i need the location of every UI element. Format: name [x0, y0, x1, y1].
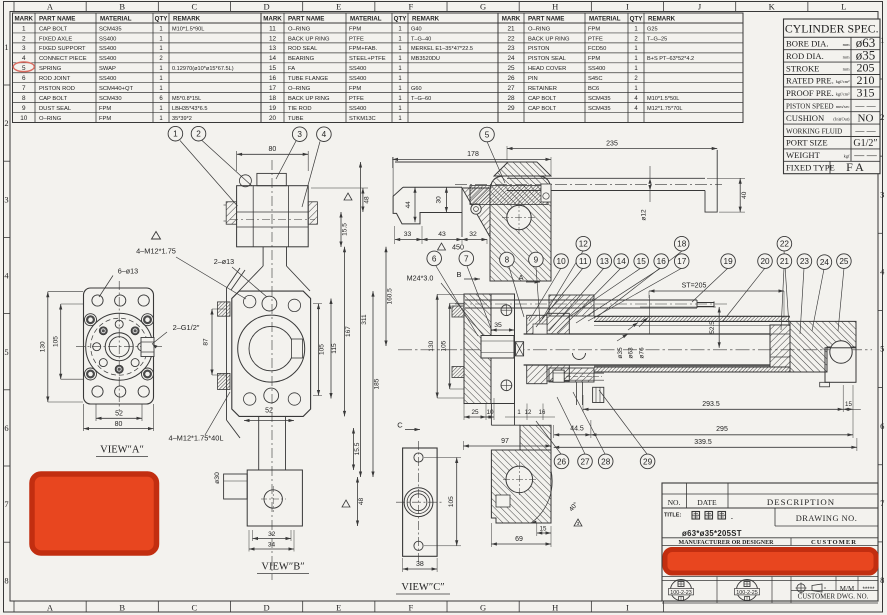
svg-text:PISTON: PISTON	[528, 46, 549, 52]
svg-text:PTFE: PTFE	[588, 36, 603, 42]
svg-text:STKM13C: STKM13C	[349, 116, 376, 122]
dim 48 upper	[311, 187, 368, 189]
svg-text:3: 3	[880, 189, 884, 199]
svg-text:PISTON SPEED: PISTON SPEED	[786, 103, 834, 111]
flange notch right	[292, 339, 303, 358]
title block	[662, 483, 878, 603]
svg-text:mm/sec: mm/sec	[836, 104, 850, 109]
svg-text:mm: mm	[843, 67, 850, 72]
svg-text:CUSTOMER DWG. NO.: CUSTOMER DWG. NO.	[798, 594, 869, 601]
gusset plate left	[227, 268, 241, 288]
dim 80 clevis	[236, 151, 238, 171]
svg-text:VIEW″B″: VIEW″B″	[261, 562, 304, 573]
balloon 16	[654, 254, 669, 269]
manufacturer / customer row	[662, 537, 878, 539]
balloon 3	[292, 127, 307, 142]
balloon 28	[598, 454, 613, 469]
svg-text:PORT SIZE: PORT SIZE	[786, 138, 828, 148]
svg-text:DESCRIPTION: DESCRIPTION	[767, 497, 835, 507]
balloon 19	[721, 254, 736, 269]
svg-text:DATE: DATE	[697, 498, 717, 507]
view A socket bolts	[85, 314, 97, 326]
svg-text:6: 6	[880, 421, 884, 431]
svg-text:MATERIAL: MATERIAL	[589, 16, 621, 23]
right dim stack view B	[313, 303, 322, 305]
svg-text:311: 311	[361, 314, 368, 325]
svg-text:L: L	[841, 2, 846, 12]
svg-text:QTY: QTY	[155, 16, 169, 23]
axle hook end	[705, 150, 717, 212]
svg-text:1: 1	[173, 130, 178, 139]
svg-text:97: 97	[501, 438, 509, 445]
balloon 18	[674, 236, 689, 251]
grid letters top	[14, 2, 846, 12]
svg-text:F: F	[408, 2, 413, 12]
svg-text:O–RING: O–RING	[39, 116, 62, 122]
svg-text:ROD SEAL: ROD SEAL	[288, 46, 318, 52]
balloon 15	[634, 254, 649, 269]
svg-text:PART NAME: PART NAME	[528, 16, 564, 23]
svg-text:15: 15	[540, 526, 547, 533]
cap bolt bottom	[501, 380, 512, 391]
gland below rod	[527, 365, 547, 384]
svg-text:SCM435: SCM435	[588, 106, 611, 112]
svg-text:7: 7	[880, 498, 884, 508]
svg-text:kgf: kgf	[844, 154, 850, 159]
balloon 7	[459, 251, 474, 266]
svg-text:130: 130	[40, 341, 47, 352]
svg-text:30: 30	[436, 196, 443, 204]
svg-text:105: 105	[53, 336, 60, 347]
dim 293.5	[582, 395, 584, 412]
tie rod centerline	[455, 303, 730, 305]
dim 40 axle	[707, 177, 745, 179]
piston assembly	[770, 325, 790, 367]
svg-text:9: 9	[22, 105, 26, 112]
head cover lower section	[463, 404, 582, 548]
parts table 2 (items 11-20)	[261, 13, 498, 123]
svg-text:44: 44	[405, 201, 412, 209]
svg-text:LBH35*43*6.5: LBH35*43*6.5	[172, 106, 207, 112]
head cover eye block	[825, 348, 856, 383]
svg-text:7: 7	[464, 254, 469, 263]
svg-text:FIXED SUPPORT: FIXED SUPPORT	[39, 46, 86, 52]
svg-text:B+S PT–63*52*4.2: B+S PT–63*52*4.2	[647, 56, 694, 62]
projection symbols	[796, 583, 827, 594]
svg-text:SWAP: SWAP	[99, 66, 116, 72]
svg-text:I: I	[626, 2, 629, 12]
head cover hatch body	[491, 450, 551, 523]
rod below flange	[258, 416, 260, 470]
svg-text:ST=205: ST=205	[682, 283, 707, 290]
dim 97	[462, 441, 464, 450]
svg-text:16: 16	[657, 257, 667, 266]
view C outline	[403, 448, 438, 556]
svg-text:4: 4	[22, 55, 26, 62]
svg-text:G: G	[480, 603, 486, 613]
svg-text:FPM+FAB.: FPM+FAB.	[349, 46, 378, 52]
svg-text:BC6: BC6	[588, 86, 599, 92]
svg-text:80: 80	[115, 421, 123, 428]
svg-text:RETAINER: RETAINER	[528, 86, 557, 92]
svg-text:52: 52	[265, 408, 273, 415]
svg-text:STEEL+PTFE: STEEL+PTFE	[349, 56, 386, 62]
svg-text:SS400: SS400	[349, 76, 366, 82]
svg-text:10: 10	[486, 409, 494, 416]
svg-text:8: 8	[880, 575, 884, 585]
svg-text:ø30: ø30	[214, 472, 221, 484]
svg-text:T–G–40: T–G–40	[411, 36, 431, 42]
svg-text:PIN: PIN	[528, 76, 538, 82]
svg-text:2: 2	[4, 118, 8, 128]
svg-text:REMARK: REMARK	[648, 16, 676, 23]
cap bolt shaft	[564, 372, 604, 374]
svg-text:3: 3	[4, 194, 8, 204]
dim 30 upper	[445, 187, 447, 212]
svg-text:16: 16	[269, 75, 277, 82]
svg-text:15: 15	[845, 401, 852, 408]
head cover notch	[496, 495, 510, 507]
svg-text:FIXED AXLE: FIXED AXLE	[39, 36, 72, 42]
svg-text:ø12: ø12	[641, 209, 648, 221]
svg-text:29: 29	[507, 105, 515, 112]
balloon 20	[758, 254, 773, 269]
left wedge gusset	[462, 188, 490, 237]
vertical bolt lower	[575, 382, 577, 405]
view A centerlines	[118, 281, 120, 411]
svg-text:2: 2	[22, 35, 26, 42]
svg-text:C: C	[397, 421, 403, 430]
svg-text:16: 16	[539, 410, 546, 416]
dim 130 view A	[48, 291, 83, 293]
balloon 4	[317, 127, 332, 142]
fixed support top outline	[395, 161, 508, 163]
svg-text:10: 10	[20, 115, 28, 122]
svg-text:G25: G25	[647, 26, 658, 32]
tie rod bar	[465, 299, 697, 301]
view A pilot circle	[86, 313, 153, 380]
svg-text:1: 1	[880, 35, 884, 45]
view C center rings	[404, 488, 433, 517]
svg-text:25: 25	[507, 65, 515, 72]
svg-text:FPM: FPM	[349, 26, 361, 32]
svg-text:7: 7	[4, 499, 8, 509]
svg-text:19: 19	[724, 257, 734, 266]
svg-text:K: K	[769, 2, 776, 12]
svg-text:MERKEL E1–35*47*22.5: MERKEL E1–35*47*22.5	[411, 46, 473, 52]
clevis side pin left	[226, 202, 236, 224]
svg-text:FIXED TYPE: FIXED TYPE	[786, 163, 835, 173]
svg-text:2: 2	[880, 112, 884, 122]
tie rod stud upper	[218, 302, 231, 316]
svg-text:M/M: M/M	[840, 585, 855, 593]
bore lines	[594, 325, 770, 327]
svg-text:CUSTOMER: CUSTOMER	[811, 539, 857, 546]
svg-text:PTFE: PTFE	[349, 96, 364, 102]
svg-text:T–G–25: T–G–25	[647, 36, 667, 42]
dim 130 main	[437, 293, 464, 295]
tube wall bottom	[594, 367, 790, 372]
dim 52.5	[640, 306, 716, 308]
rod joint nut	[481, 336, 514, 359]
svg-text:PART NAME: PART NAME	[39, 16, 75, 23]
svg-text:WORKING FLUID: WORKING FLUID	[786, 127, 842, 135]
svg-text:— —: — —	[854, 126, 876, 136]
balloon leader fan	[436, 142, 844, 455]
svg-text:(In)(Out): (In)(Out)	[833, 116, 850, 121]
balloon 13	[597, 254, 612, 269]
dim 44	[414, 187, 416, 222]
svg-text:H: H	[552, 2, 558, 12]
svg-text:13: 13	[600, 257, 610, 266]
head cover pin hole	[506, 466, 533, 493]
grid numbers right	[878, 35, 885, 585]
svg-text:BACK UP RING: BACK UP RING	[288, 96, 330, 102]
parts table 1 (items 1-10)	[13, 13, 262, 123]
svg-text:CAP BOLT: CAP BOLT	[39, 96, 68, 102]
svg-text:18: 18	[677, 240, 687, 249]
svg-text:SCM435: SCM435	[99, 26, 122, 32]
dims 33 43 32	[394, 226, 396, 244]
svg-text:35: 35	[494, 322, 502, 329]
svg-text:293.5: 293.5	[702, 401, 720, 408]
red redaction box lower-left	[32, 474, 157, 553]
svg-text:167: 167	[345, 326, 352, 337]
view A center bore	[105, 333, 133, 361]
balloon 14	[614, 254, 629, 269]
balloon 17	[674, 254, 689, 269]
svg-text:.: .	[731, 514, 733, 521]
weld mark triangle	[344, 193, 352, 200]
svg-text:STROKE: STROKE	[786, 63, 819, 73]
balloon 21	[777, 254, 792, 269]
svg-text:QTY: QTY	[630, 16, 644, 23]
dim 235	[506, 146, 508, 160]
svg-text:26: 26	[557, 457, 567, 466]
view A flange face	[40, 247, 247, 457]
svg-text:339.5: 339.5	[694, 439, 712, 446]
svg-text:ø63*ø35*205ST: ø63*ø35*205ST	[682, 529, 742, 538]
svg-text:100-2-23: 100-2-23	[670, 590, 692, 596]
svg-text:NO.: NO.	[668, 498, 681, 507]
svg-text:FPM: FPM	[99, 116, 111, 122]
svg-text:O–RING: O–RING	[528, 26, 551, 32]
svg-text:FCD50: FCD50	[588, 46, 606, 52]
svg-text:69: 69	[515, 536, 523, 543]
balloon 12	[576, 236, 591, 251]
svg-text:E: E	[336, 2, 341, 12]
svg-text:24: 24	[507, 55, 515, 62]
svg-text:SS400: SS400	[349, 106, 366, 112]
svg-text:FA: FA	[288, 66, 295, 72]
svg-text:S45C: S45C	[588, 76, 603, 82]
svg-text:5: 5	[4, 347, 8, 357]
svg-text:8: 8	[4, 575, 8, 585]
svg-text:PROOF PRE.: PROOF PRE.	[786, 88, 834, 98]
svg-text:27: 27	[580, 457, 590, 466]
svg-text:CONNECT PIECE: CONNECT PIECE	[39, 56, 87, 62]
FA flange plate section	[464, 294, 491, 404]
svg-text:C: C	[192, 2, 198, 12]
dim 52 view A	[95, 404, 97, 421]
svg-text:DRAWING NO.: DRAWING NO.	[796, 514, 858, 523]
rod end block	[247, 470, 302, 526]
svg-text:M10*1.5*90L: M10*1.5*90L	[172, 26, 204, 32]
tube flange lower	[549, 368, 594, 382]
svg-text:VIEW″A″: VIEW″A″	[100, 445, 144, 456]
svg-text:130: 130	[428, 340, 435, 351]
view A plate outline	[84, 288, 154, 404]
svg-text:QTY: QTY	[394, 16, 408, 23]
svg-text:1: 1	[22, 25, 26, 32]
svg-text:mm: mm	[843, 54, 850, 59]
balloon 8	[500, 252, 515, 267]
svg-text:SS400: SS400	[99, 76, 116, 82]
svg-text:MARK: MARK	[263, 16, 282, 23]
dim 87 view B	[212, 308, 226, 310]
svg-text:8: 8	[505, 255, 510, 264]
balloon 2	[191, 126, 206, 141]
svg-text:TITLE:: TITLE:	[664, 513, 682, 519]
balloon 25	[837, 254, 852, 269]
svg-text:4–M12*1.75*40L: 4–M12*1.75*40L	[168, 434, 223, 443]
retainer block	[553, 370, 564, 382]
dim 38 view C	[402, 558, 404, 572]
customer dwg no row	[791, 590, 878, 592]
svg-text:G1/2″: G1/2″	[853, 138, 877, 149]
svg-text:1: 1	[4, 42, 8, 52]
svg-text:7: 7	[22, 85, 26, 92]
approval stamp 1	[669, 580, 694, 601]
balloon 11	[576, 254, 591, 269]
svg-text:FPM: FPM	[99, 106, 111, 112]
dim 69	[490, 523, 492, 547]
svg-text:WEIGHT: WEIGHT	[786, 150, 821, 160]
svg-text:22: 22	[780, 240, 790, 249]
head cover right	[790, 321, 856, 372]
svg-text:ø35: ø35	[617, 347, 624, 359]
svg-text:32: 32	[268, 531, 276, 538]
svg-text:BACK UP RING: BACK UP RING	[288, 36, 330, 42]
svg-text:40: 40	[741, 191, 748, 199]
FA plate left tabs	[452, 306, 464, 317]
svg-text:11: 11	[579, 257, 588, 266]
svg-text:105: 105	[440, 340, 447, 351]
svg-text:32: 32	[469, 231, 477, 238]
svg-text:ROD DIA.: ROD DIA.	[786, 51, 824, 61]
svg-text:MARK: MARK	[14, 16, 33, 23]
svg-text:F: F	[408, 603, 413, 613]
svg-text:2–ø13: 2–ø13	[214, 257, 234, 266]
view C plate	[396, 441, 461, 594]
svg-text:52: 52	[115, 411, 123, 418]
view B rod assembly side view	[152, 126, 394, 580]
dim 15 right	[852, 385, 854, 438]
dims 1 12 16	[514, 404, 516, 421]
dim 35 gland	[490, 318, 492, 327]
svg-text:48: 48	[364, 196, 371, 204]
svg-text:*****: *****	[862, 586, 875, 593]
svg-text:VIEW″C″: VIEW″C″	[401, 582, 444, 593]
svg-text:178: 178	[467, 151, 479, 158]
svg-text:9: 9	[534, 255, 539, 264]
svg-text:REMARK: REMARK	[173, 16, 201, 23]
dim 80 view A	[83, 404, 85, 431]
svg-text:6: 6	[22, 75, 26, 82]
tube wall top	[594, 316, 790, 321]
svg-text:17: 17	[269, 85, 277, 92]
head cover connecting plate	[490, 404, 492, 426]
dim 15.5 upper	[340, 212, 342, 247]
dim 178	[392, 157, 394, 168]
svg-text:4–M12*1.75: 4–M12*1.75	[136, 247, 176, 256]
red ellipse mark on spring row	[13, 62, 34, 72]
svg-text:SS400: SS400	[588, 66, 605, 72]
backing plate	[491, 294, 515, 404]
svg-text:NO: NO	[858, 112, 874, 124]
svg-text:315: 315	[857, 86, 875, 100]
weld symbol 450	[438, 243, 446, 250]
svg-text:F A: F A	[846, 160, 864, 174]
balloon 23	[797, 254, 812, 269]
svg-text:kgf/cm²: kgf/cm²	[836, 92, 850, 97]
axle centerline upper	[455, 183, 722, 185]
svg-text:E: E	[336, 603, 341, 613]
svg-text:I: I	[626, 603, 629, 613]
dim 52 view B	[244, 420, 294, 422]
dim 44.5	[553, 425, 555, 438]
svg-text:M10*1.5*50L: M10*1.5*50L	[647, 96, 679, 102]
svg-text:11: 11	[269, 25, 276, 32]
svg-text:27: 27	[507, 85, 515, 92]
svg-text:38: 38	[416, 561, 424, 568]
svg-text:12: 12	[579, 240, 589, 249]
dims 25 10	[463, 404, 465, 421]
svg-text:160.5: 160.5	[387, 288, 394, 305]
svg-text:450: 450	[452, 243, 464, 252]
svg-text:33: 33	[404, 231, 412, 238]
svg-text:48: 48	[358, 498, 365, 506]
view A port boss	[141, 338, 154, 357]
svg-text:25: 25	[839, 257, 849, 266]
svg-text:295: 295	[716, 426, 728, 433]
svg-text:B: B	[119, 2, 125, 12]
svg-text:34: 34	[268, 542, 276, 549]
svg-text:A: A	[518, 273, 523, 282]
svg-text:FPM: FPM	[588, 26, 600, 32]
view C bottom hole	[414, 541, 423, 550]
svg-text:15: 15	[269, 65, 277, 72]
svg-text:6: 6	[432, 254, 437, 263]
svg-text:15.5: 15.5	[354, 442, 361, 455]
svg-text:SS400: SS400	[99, 46, 116, 52]
svg-text:24: 24	[820, 258, 830, 267]
balloon 9	[529, 252, 544, 267]
svg-text:O–RING: O–RING	[288, 86, 311, 92]
svg-text:23: 23	[800, 257, 810, 266]
head cover tab	[820, 382, 830, 387]
svg-text:100-2-25: 100-2-25	[736, 590, 758, 596]
angle 40 arc	[531, 470, 552, 523]
svg-text:105: 105	[319, 344, 326, 355]
approval cells	[662, 576, 878, 578]
svg-text:C: C	[192, 603, 198, 613]
svg-text:mm: mm	[843, 42, 850, 47]
view A corner holes 6-d13	[92, 295, 103, 306]
svg-text:23: 23	[507, 45, 515, 52]
svg-text:BACK UP RING: BACK UP RING	[528, 36, 570, 42]
svg-text:0.12970(ø10*ø15*67.5L): 0.12970(ø10*ø15*67.5L)	[172, 66, 234, 72]
